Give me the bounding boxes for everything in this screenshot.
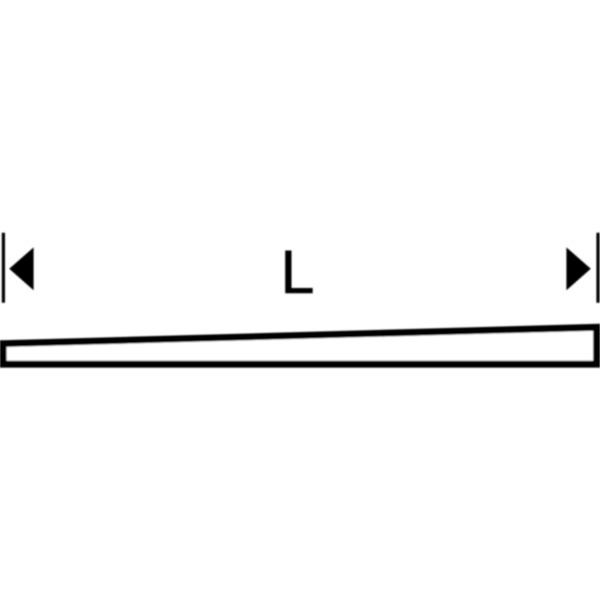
svg-text:L: L [281,238,315,306]
extension tick right [596,233,599,303]
arrowhead left [9,247,33,290]
extension tick left [2,233,5,303]
arrowhead right [566,247,590,290]
wedge profile (tapered shim, side view) [3,327,596,364]
